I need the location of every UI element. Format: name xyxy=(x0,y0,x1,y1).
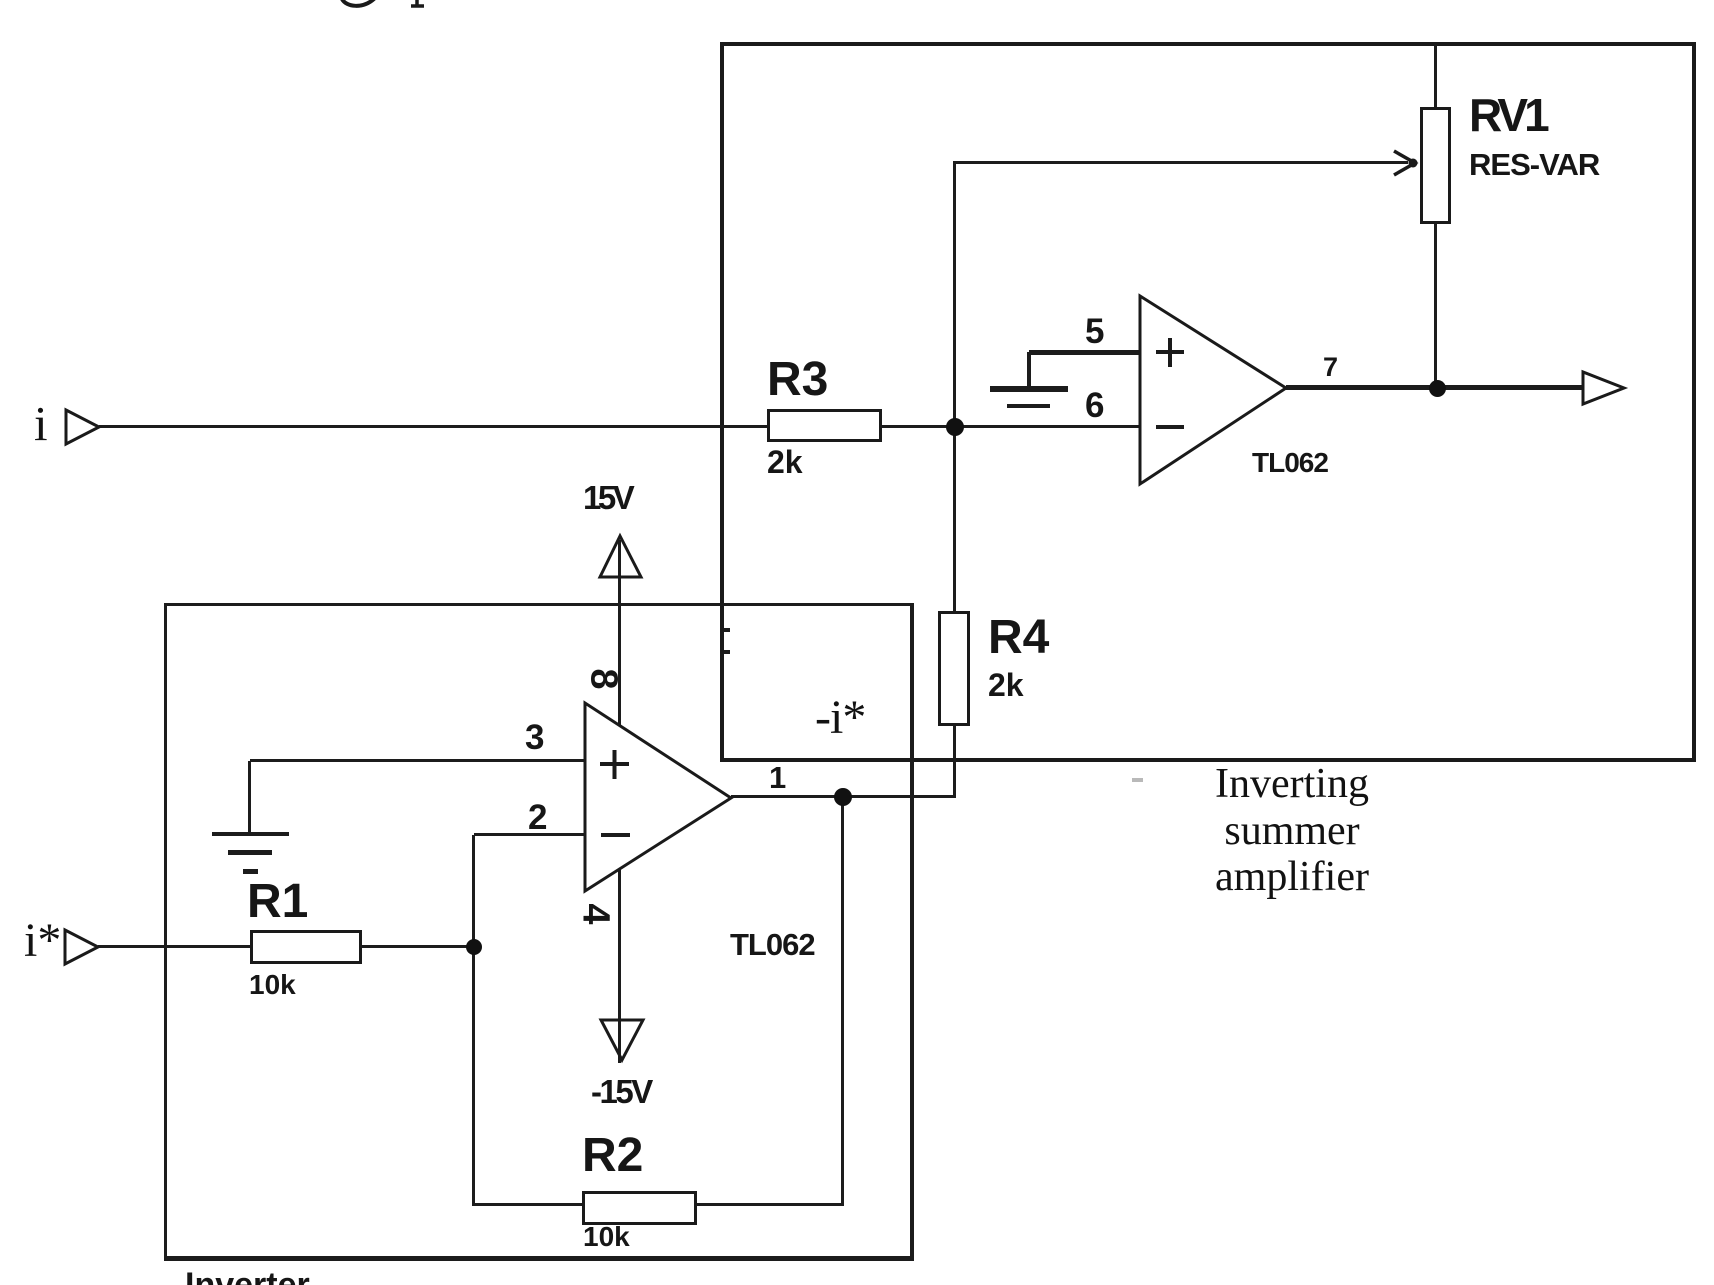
op-amp U2 summer triangle xyxy=(1130,286,1300,496)
wire: wiper horizontal to RV1 xyxy=(953,161,1408,164)
net label i xyxy=(34,399,48,448)
label TL062 (summer) xyxy=(1252,449,1328,477)
node B: output node dot xyxy=(1429,380,1446,397)
label RV1 xyxy=(1469,92,1546,138)
wire: R2 right to feedback xyxy=(696,1203,843,1206)
resistor R1 xyxy=(250,930,362,964)
wire: R3 to summing node xyxy=(882,425,948,428)
wire: feedback vertical x=843 xyxy=(841,797,844,1206)
tick marks on summer box left edge xyxy=(724,628,730,632)
label -15V xyxy=(591,1075,651,1108)
wire: R4 bottom lead xyxy=(953,725,956,798)
node D: R1 junction dot xyxy=(466,939,482,955)
caption: Inverter (clipped) xyxy=(185,1268,310,1285)
wire: summer output (thick) xyxy=(1286,385,1583,390)
wire: pin3 horizontal xyxy=(250,759,585,762)
wire: summing node to pin6 xyxy=(962,425,1140,428)
value 2k (R4) xyxy=(988,669,1024,701)
ground (summer) xyxy=(990,386,1068,392)
inverting summer amplifier box xyxy=(720,42,1696,762)
label 15V xyxy=(583,481,631,514)
wire: R1 to node xyxy=(361,945,467,948)
pin 5 xyxy=(1085,314,1104,349)
caption descender fragment (g p) xyxy=(0,0,500,30)
label TL062 (inverter) xyxy=(730,929,815,960)
input connector i xyxy=(56,400,110,454)
pin 3 xyxy=(525,720,544,755)
wire: RV1 bottom lead to output node xyxy=(1434,223,1437,390)
wire: RV1 top lead xyxy=(1434,44,1437,108)
op-amp U2 plus xyxy=(1150,333,1190,373)
node C: inverter output dot xyxy=(834,788,852,806)
wire: pin5 drop to ground xyxy=(1027,352,1031,386)
label R3 xyxy=(767,356,828,404)
value RES-VAR xyxy=(1469,149,1599,180)
wire: drop to inverter ground xyxy=(248,761,251,833)
pin 2 xyxy=(528,800,547,835)
node A: summing junction dot xyxy=(946,418,964,436)
net label i* xyxy=(24,917,61,965)
wire: R2 left xyxy=(474,1203,583,1206)
wire: R1 node vertical x=474 xyxy=(472,835,475,1206)
wire: pin5 horizontal (thick) xyxy=(1029,350,1140,355)
label R4 xyxy=(988,614,1049,662)
output connector xyxy=(1573,362,1637,414)
value 2k (R3) xyxy=(767,446,803,478)
wiper arrowhead xyxy=(1385,145,1425,181)
power 15V arrow xyxy=(590,526,650,586)
op-amp U1 plus xyxy=(595,745,635,785)
resistor R3 xyxy=(767,409,882,442)
wire: pin4 to -15V xyxy=(618,868,621,1063)
ghost mark xyxy=(1132,778,1143,782)
pin 1 xyxy=(769,762,786,793)
net label -i* xyxy=(815,694,865,742)
op-amp U2 minus xyxy=(1156,425,1184,429)
wire: pin2 horizontal xyxy=(474,833,585,836)
wire: 15V supply to pin8 xyxy=(618,540,621,726)
caption: Inverting summer amplifier xyxy=(1160,761,1424,901)
pin 6 xyxy=(1085,388,1104,423)
value 10k (R1) xyxy=(249,971,296,999)
pin 4 (rotated) xyxy=(577,903,615,924)
op-amp U1 minus xyxy=(601,833,630,837)
resistor R2 xyxy=(582,1191,697,1225)
resistor R4 xyxy=(938,611,970,726)
inverter box xyxy=(164,603,167,1261)
pin 7 xyxy=(1323,354,1338,381)
power -15V arrow xyxy=(591,1010,651,1070)
resistor RV1 xyxy=(1420,107,1451,224)
wire: input i to R3 xyxy=(99,425,768,428)
wire: i* input to R1 xyxy=(98,945,251,948)
wire: inverter output to R4 corner xyxy=(731,795,956,798)
pin 8 (rotated) xyxy=(585,668,623,689)
value 10k (R2) xyxy=(583,1223,630,1251)
ground (inverter) xyxy=(212,832,289,836)
input connector i* xyxy=(55,920,109,974)
label R1 xyxy=(247,878,308,926)
label R2 xyxy=(582,1132,643,1180)
op-amp U1 inverter triangle xyxy=(575,693,745,903)
wire: vertical R3 node / RV1 wiper / R4 top xyxy=(953,162,956,613)
